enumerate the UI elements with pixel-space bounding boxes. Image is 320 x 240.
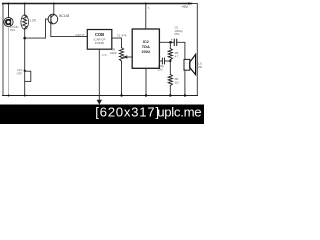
svg-text:ICM45): ICM45) (95, 41, 105, 45)
bottom rail junction dots (8, 95, 10, 97)
resistor R6 (168, 74, 172, 85)
wire VR1 wiper to IC2 (127, 56, 133, 58)
wire IC1 output to VR1 (112, 38, 122, 48)
svg-text:MIC.: MIC. (10, 28, 16, 32)
resistor R1 1.2K (21, 15, 29, 29)
svg-text:+: + (171, 38, 173, 42)
wire R1 top (24, 4, 26, 16)
wire mic to ground rail (8, 27, 10, 96)
transistor Q1 BC148 (48, 14, 58, 24)
wire IC2 Vcc pin to rail (145, 4, 147, 30)
potentiometer VR1 100K (119, 48, 127, 62)
top supply rail (3, 3, 192, 5)
svg-text:100K: 100K (110, 51, 117, 55)
ground arrow (97, 100, 102, 105)
IC1 COB box (87, 30, 112, 50)
bottom ground rail (3, 95, 198, 97)
node B junction (169, 41, 172, 44)
speaker LS (184, 54, 196, 74)
IC2 TDA2002 box (132, 29, 159, 68)
top rail junction dots (8, 3, 10, 5)
svg-text:4.7: 4.7 (175, 54, 179, 58)
capacitor C5 1000u plates (174, 39, 176, 45)
border frame (3, 4, 197, 96)
wire node C down (169, 61, 171, 74)
svg-text:1.2K: 1.2K (29, 18, 36, 22)
capacitor C4 from IC2 pin (159, 58, 170, 64)
svg-text:GND: GND (102, 53, 108, 57)
wire C5 to speaker (177, 42, 185, 59)
svg-text:+9V: +9V (181, 5, 188, 9)
wire Q1 collector to rail (53, 4, 55, 15)
svg-text:uplc.me: uplc.me (157, 105, 201, 120)
node C junction (169, 60, 171, 62)
condenser mic M1 (4, 17, 13, 26)
svg-text:C1 474: C1 474 (117, 33, 127, 37)
svg-text:2002: 2002 (141, 49, 150, 54)
wire Q1 emitter to IC1 input (51, 24, 88, 37)
svg-text:[620x317]: [620x317] (95, 105, 159, 120)
wire speaker to ground rail (184, 70, 186, 95)
wire IC2 output (159, 41, 174, 43)
wire switch to ground rail (24, 82, 26, 96)
wire R6 to ground rail (169, 86, 171, 96)
wire node A to base of Q1 (25, 19, 49, 38)
wire node A down to switch (24, 38, 26, 71)
switch S1 (24, 70, 31, 82)
node A junction (23, 37, 26, 40)
supply arrow +9V (189, 2, 193, 5)
wire mic branch (8, 4, 10, 18)
svg-text:OFF: OFF (17, 71, 23, 75)
wire IC1 ground pin (98, 49, 100, 100)
svg-text:+: + (159, 55, 161, 59)
svg-text:25V: 25V (174, 32, 179, 36)
svg-text:25V: 25V (158, 67, 163, 71)
svg-text:INPUT: INPUT (76, 33, 85, 37)
wire R1 bottom to node A (24, 29, 26, 38)
resistor R5 (168, 42, 172, 61)
wire IC2 ground pin (145, 68, 147, 95)
svg-text:BC148: BC148 (59, 14, 69, 18)
watermark bar (0, 105, 204, 125)
wire VR1 bottom to ground rail (121, 61, 123, 95)
